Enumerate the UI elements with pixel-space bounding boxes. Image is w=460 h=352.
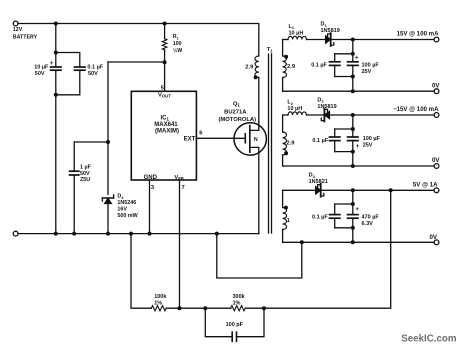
svg-text:T1: T1	[267, 47, 274, 53]
svg-text:50V: 50V	[88, 71, 98, 77]
svg-text:+: +	[50, 60, 54, 67]
svg-text:1N5821: 1N5821	[309, 179, 328, 185]
svg-text:D3: D3	[309, 173, 316, 179]
svg-text:100 pF: 100 pF	[226, 322, 244, 328]
svg-text:0.1 µF: 0.1 µF	[312, 214, 328, 220]
svg-text:SeekIC.com: SeekIC.com	[401, 333, 456, 344]
svg-text:10 µH: 10 µH	[287, 106, 302, 112]
svg-text:5V @ 1A: 5V @ 1A	[413, 181, 438, 188]
svg-text:16V: 16V	[117, 207, 127, 213]
svg-text:100: 100	[173, 41, 182, 47]
svg-text:10 µF: 10 µF	[34, 65, 49, 71]
svg-text:L1: L1	[289, 24, 295, 30]
svg-text:50V: 50V	[80, 171, 90, 177]
svg-text:1%: 1%	[154, 300, 162, 306]
svg-text:−15V @ 100 mA: −15V @ 100 mA	[393, 106, 439, 113]
svg-text:300k: 300k	[233, 294, 246, 300]
svg-text:+: +	[356, 144, 360, 150]
svg-text:2.9: 2.9	[287, 64, 296, 70]
svg-text:25V: 25V	[363, 143, 373, 149]
svg-text:D1: D1	[321, 22, 328, 28]
svg-text:BATTERY: BATTERY	[13, 34, 38, 40]
svg-text:0V: 0V	[430, 234, 438, 241]
svg-text:VFB: VFB	[174, 175, 183, 181]
svg-text:0.1 µF: 0.1 µF	[312, 138, 328, 144]
svg-text:½W: ½W	[173, 47, 182, 54]
svg-text:MAX641: MAX641	[154, 122, 178, 128]
svg-text:L2: L2	[287, 100, 293, 106]
svg-text:25V: 25V	[362, 69, 372, 75]
svg-text:N: N	[254, 137, 258, 143]
svg-text:100 µF: 100 µF	[363, 136, 381, 142]
svg-text:10 µH: 10 µH	[289, 30, 304, 36]
svg-text:BU271A: BU271A	[224, 109, 247, 115]
svg-text:12V: 12V	[13, 27, 23, 33]
svg-text:2.9: 2.9	[286, 141, 295, 147]
svg-text:Z5U: Z5U	[80, 177, 90, 183]
svg-text:100 µF: 100 µF	[362, 63, 380, 69]
svg-text:GND: GND	[144, 175, 158, 181]
svg-text:VOUT: VOUT	[158, 92, 171, 98]
svg-text:470 µF: 470 µF	[362, 214, 380, 220]
svg-text:7: 7	[182, 185, 185, 191]
svg-text:(MOTOROLA): (MOTOROLA)	[219, 117, 257, 123]
svg-text:1%: 1%	[233, 300, 241, 306]
svg-text:50V: 50V	[35, 71, 45, 77]
svg-text:100k: 100k	[154, 294, 167, 300]
svg-text:D2: D2	[317, 97, 324, 103]
svg-text:0.1 µF: 0.1 µF	[87, 65, 103, 71]
svg-text:Q1: Q1	[233, 101, 241, 107]
svg-text:1N5246: 1N5246	[117, 200, 136, 206]
svg-text:D4: D4	[117, 194, 124, 200]
svg-text:0V: 0V	[432, 82, 440, 89]
svg-text:+: +	[355, 207, 359, 213]
svg-text:15V @ 100 mA: 15V @ 100 mA	[397, 30, 439, 37]
svg-text:0.1 µF: 0.1 µF	[311, 63, 327, 69]
svg-text:(MAXIM): (MAXIM)	[155, 129, 179, 135]
svg-text:+: +	[355, 55, 359, 61]
svg-text:EXT: EXT	[184, 137, 196, 143]
svg-text:500 mW: 500 mW	[117, 213, 138, 219]
svg-text:1N5819: 1N5819	[321, 28, 340, 34]
svg-text:6.3V: 6.3V	[362, 221, 374, 227]
svg-text:1 µF: 1 µF	[80, 165, 92, 171]
svg-text:1N5819: 1N5819	[317, 104, 336, 110]
svg-text:IC1: IC1	[161, 115, 170, 121]
svg-text:2.9: 2.9	[245, 64, 254, 70]
svg-text:0V: 0V	[432, 157, 440, 164]
